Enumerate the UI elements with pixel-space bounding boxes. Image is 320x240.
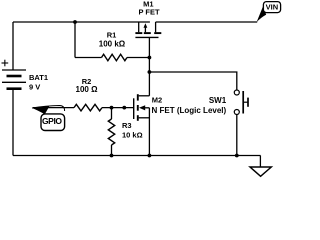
svg-text:100 kΩ: 100 kΩ (99, 40, 126, 49)
svg-text:100 Ω: 100 Ω (76, 85, 99, 94)
wire battery top lead (12, 22, 14, 70)
switch SW1 pushbutton (234, 90, 248, 115)
ground symbol (250, 167, 271, 176)
transistor M2 N-channel MOSFET logic level (134, 94, 150, 121)
SW1 terminal circle top (234, 90, 239, 95)
transistor M1 P-channel MOSFET (135, 22, 161, 37)
battery plate long (2, 81, 26, 83)
M1 channel dash middle (144, 32, 151, 34)
wire R1 branch vertical from top rail (74, 22, 76, 58)
M1 bulk stub with arrow up (144, 27, 146, 32)
svg-text:M2: M2 (152, 96, 162, 105)
battery plate short thick bottom (7, 87, 22, 90)
wire M1 gate vertical down to M2 drain (148, 37, 150, 95)
M2 drain lead (139, 95, 150, 97)
M2 source lead (139, 117, 150, 119)
M1 gate line (135, 36, 158, 38)
M2 gate bar (133, 98, 135, 119)
SW1 terminal circle bottom (234, 110, 239, 115)
svg-text:9 V: 9 V (29, 83, 40, 92)
junction dot R2 R3 (110, 106, 114, 110)
junction dot gate node R1 (148, 56, 152, 60)
wire R1 left lead (75, 57, 102, 59)
resistor R2 (74, 104, 102, 111)
battery plate short thick (7, 75, 22, 78)
wire top rail battery+ to M1 source (13, 21, 150, 23)
junction dot gate node SW1 branch (148, 70, 152, 74)
resistor R1 (102, 54, 128, 60)
wire R1 right lead to gate node (127, 57, 149, 59)
M1 source stub left (138, 22, 140, 32)
wire battery bottom lead (12, 89, 14, 155)
SW1 actuator cap (247, 98, 249, 107)
junction dot SW1 bottom rail (235, 154, 239, 158)
wire R3 bottom lead (111, 145, 113, 156)
wire M1 drain to VIN (156, 21, 258, 23)
wire R2 right lead to M2 gate (102, 107, 133, 109)
M2 channel dash middle (137, 105, 139, 111)
junction dot R3 bottom rail (110, 154, 114, 158)
junction dot M2 gate wire (122, 106, 126, 110)
resistor R3 (108, 119, 114, 145)
M2 channel dash bottom (137, 115, 139, 121)
M2 bulk lead (144, 107, 149, 109)
M2 channel dash top (137, 94, 139, 100)
wire GPIO to R2 (33, 107, 74, 109)
M2 bulk arrowhead pointing left (139, 105, 145, 110)
battery BAT1 (2, 70, 26, 89)
wire SW1 bottom lead to ground rail (236, 114, 238, 155)
VIN callout box (263, 2, 280, 13)
wire gate node to SW1 top (149, 72, 236, 90)
junction dot top rail R1 tap (73, 20, 77, 24)
SW1 actuator bar (242, 91, 244, 114)
battery plus sign (2, 60, 9, 67)
svg-text:R1: R1 (107, 30, 117, 39)
svg-text:N FET (Logic Level): N FET (Logic Level) (152, 106, 227, 115)
SW1 actuator stem (243, 101, 248, 103)
GPIO callout pointer wedge (32, 106, 50, 114)
GPIO callout pointer (32, 106, 65, 112)
M1 bulk arrowhead (144, 23, 148, 28)
svg-text:R3: R3 (122, 121, 132, 130)
wire R3 top lead (111, 108, 113, 119)
svg-text:SW1: SW1 (209, 96, 227, 105)
battery plate long top (2, 69, 26, 71)
wire ground stub (259, 156, 261, 168)
svg-text:P FET: P FET (138, 8, 160, 17)
GPIO callout box (41, 114, 65, 131)
svg-text:VIN: VIN (266, 2, 279, 11)
svg-text:GPIO: GPIO (42, 116, 62, 126)
wire M2 source vertical to ground rail (148, 108, 150, 156)
svg-text:10 kΩ: 10 kΩ (122, 131, 143, 140)
wire bottom ground rail (13, 155, 261, 157)
M1 drain stub right (155, 22, 157, 32)
M1 channel dash left (135, 32, 142, 34)
M1 channel dash right (154, 32, 161, 34)
junction dot M2 source rail (148, 154, 152, 158)
svg-text:BAT1: BAT1 (29, 73, 48, 82)
VIN callout pointer (257, 6, 267, 22)
